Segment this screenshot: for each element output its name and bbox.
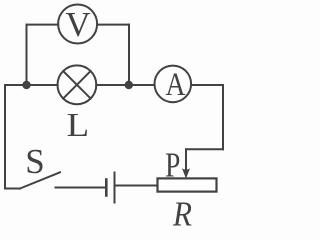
wire switch to battery [56,187,106,189]
lamp X diagonal 1 [63,71,90,98]
lamp X diagonal 2 [63,71,90,98]
wire wiper vertical [185,149,187,169]
battery long plate [114,173,116,203]
wire ammeter to right corner [191,84,223,86]
wire right rail vertical [222,85,224,149]
wire battery to rheostat [116,185,158,187]
wire right rail horizontal to wiper [186,148,223,150]
rheostat R box [158,178,217,191]
battery short plate [105,180,108,196]
wire main line left: node A to lamp [5,84,58,86]
switch S blade [20,172,60,188]
wire voltmeter right horizontal [97,24,129,26]
wiper arrowhead P [182,168,190,178]
wire left rail vertical [4,85,6,189]
ammeter A circle [155,66,192,103]
voltmeter V circle [58,5,97,44]
svg-text:P: P [165,145,180,184]
node B junction dot [125,81,133,89]
switch S stub [5,188,20,190]
wire lamp to ammeter [96,84,154,86]
lamp L circle [58,65,97,104]
svg-text:A: A [166,67,186,103]
svg-text:V: V [65,5,90,44]
wire top-left horizontal to voltmeter [27,24,59,26]
wire left vertical from V branch to node A [26,25,28,85]
svg-text:L: L [67,107,90,144]
wire right vertical from V branch to node B [128,25,130,85]
svg-text:R: R [172,195,192,230]
svg-text:S: S [25,142,44,181]
node A junction dot [22,81,30,89]
